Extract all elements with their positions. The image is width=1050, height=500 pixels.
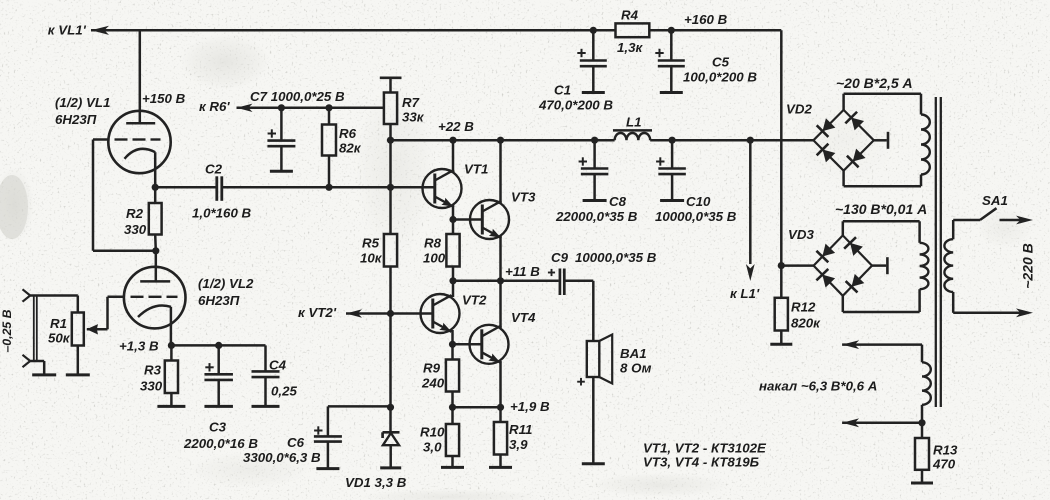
svg-text:+1,3 В: +1,3 В (119, 339, 159, 354)
svg-text:R9: R9 (423, 361, 441, 376)
svg-text:R8: R8 (424, 236, 442, 251)
svg-text:R13: R13 (933, 443, 958, 458)
svg-text:BA1: BA1 (620, 346, 647, 361)
svg-text:к L1': к L1' (730, 286, 760, 301)
svg-text:100,0*200 В: 100,0*200 В (683, 70, 757, 85)
svg-text:10000,0*35 В: 10000,0*35 В (575, 250, 657, 265)
svg-text:L1: L1 (626, 115, 642, 130)
svg-text:C5: C5 (712, 55, 730, 70)
svg-text:6Н23П: 6Н23П (55, 112, 97, 127)
svg-text:к VL1': к VL1' (48, 23, 87, 38)
svg-text:(1/2) VL2: (1/2) VL2 (198, 276, 254, 291)
svg-text:3,9: 3,9 (509, 437, 528, 452)
svg-text:1,0*160 В: 1,0*160 В (192, 206, 252, 221)
svg-text:VD2: VD2 (786, 102, 812, 117)
svg-text:C3: C3 (209, 420, 227, 435)
svg-text:–0,25 В: –0,25 В (0, 309, 14, 352)
svg-text:C10: C10 (686, 194, 711, 209)
svg-text:3,0: 3,0 (423, 440, 442, 455)
svg-text:3300,0*6,3 В: 3300,0*6,3 В (243, 450, 321, 465)
svg-text:VT2: VT2 (462, 293, 487, 308)
svg-text:330: 330 (140, 379, 163, 394)
svg-text:R12: R12 (791, 300, 816, 315)
svg-text:+160 В: +160 В (684, 12, 728, 27)
svg-text:10000,0*35 В: 10000,0*35 В (655, 209, 737, 224)
svg-text:100: 100 (423, 251, 446, 266)
svg-text:VD1 3,3 В: VD1 3,3 В (345, 475, 407, 490)
svg-text:22000,0*35 В: 22000,0*35 В (555, 209, 638, 224)
svg-text:VT1, VT2 - КТ3102Е: VT1, VT2 - КТ3102Е (643, 441, 767, 456)
svg-text:к VT2': к VT2' (298, 305, 337, 320)
svg-text:50к: 50к (48, 331, 71, 346)
svg-text:C6: C6 (287, 435, 305, 450)
svg-text:R3: R3 (144, 363, 162, 378)
svg-text:8 Ом: 8 Ом (620, 361, 652, 376)
svg-text:C4: C4 (269, 358, 287, 373)
svg-text:+22 В: +22 В (438, 119, 474, 134)
svg-text:C1: C1 (554, 83, 571, 98)
svg-text:R6: R6 (339, 126, 357, 141)
svg-text:470,0*200 В: 470,0*200 В (538, 98, 613, 113)
svg-text:VT4: VT4 (511, 310, 536, 325)
svg-text:2200,0*16 В: 2200,0*16 В (183, 436, 258, 451)
svg-text:C9: C9 (551, 250, 569, 265)
svg-text:R7: R7 (402, 95, 420, 110)
svg-text:~130 В*0,01 А: ~130 В*0,01 А (835, 201, 927, 217)
svg-text:+11 В: +11 В (505, 264, 540, 279)
svg-text:+150 В: +150 В (142, 91, 186, 106)
svg-text:R10: R10 (420, 425, 445, 440)
svg-text:82к: 82к (339, 141, 362, 156)
svg-text:R5: R5 (362, 236, 380, 251)
svg-text:330: 330 (124, 222, 147, 237)
svg-text:0,25: 0,25 (271, 384, 297, 399)
svg-text:C7 1000,0*25 В: C7 1000,0*25 В (250, 89, 345, 104)
svg-text:накал ~6,3 В*0,6 А: накал ~6,3 В*0,6 А (759, 379, 877, 394)
svg-text:10к: 10к (360, 251, 383, 266)
svg-text:820к: 820к (791, 316, 821, 331)
svg-text:~20 В*2,5 А: ~20 В*2,5 А (836, 75, 913, 91)
svg-text:1,3к: 1,3к (617, 40, 643, 55)
svg-text:VD3: VD3 (788, 227, 814, 242)
svg-text:R4: R4 (621, 8, 639, 23)
svg-text:VT3, VT4 - КТ819Б: VT3, VT4 - КТ819Б (643, 455, 759, 470)
svg-text:SA1: SA1 (982, 193, 1008, 208)
svg-text:R11: R11 (509, 422, 532, 437)
svg-text:C8: C8 (609, 194, 627, 209)
svg-text:R2: R2 (126, 206, 144, 221)
svg-text:33к: 33к (402, 110, 425, 125)
svg-text:VT1: VT1 (464, 162, 488, 177)
svg-text:470: 470 (932, 457, 956, 472)
svg-text:R1: R1 (50, 316, 67, 331)
svg-text:6Н23П: 6Н23П (198, 293, 240, 308)
svg-text:(1/2) VL1: (1/2) VL1 (55, 95, 110, 110)
svg-text:240: 240 (421, 376, 445, 391)
svg-text:к R6': к R6' (199, 99, 230, 114)
svg-text:VT3: VT3 (511, 190, 536, 205)
svg-text:C2: C2 (205, 162, 223, 177)
svg-text:~220 В: ~220 В (1020, 243, 1036, 289)
svg-text:+1,9 В: +1,9 В (510, 399, 550, 414)
